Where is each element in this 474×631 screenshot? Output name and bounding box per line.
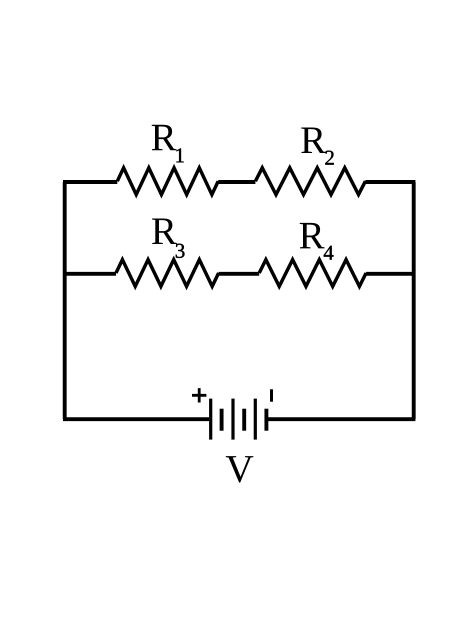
wire middle right segment (366, 272, 415, 276)
label R1 (152, 125, 177, 151)
label R2 subscript 2 (325, 151, 333, 165)
resistor R1 (117, 168, 218, 195)
wire top right segment (365, 180, 415, 184)
label R4 subscript 4 (324, 246, 334, 260)
label R2 (301, 127, 326, 153)
label R1 subscript 1 (176, 148, 183, 162)
wire bottom right segment (268, 417, 415, 421)
wire between R3 and R4 (219, 272, 260, 276)
battery plus sign (192, 388, 206, 402)
battery short plate 3 (264, 409, 268, 431)
battery long plate 3 (254, 399, 257, 440)
wire right vertical (412, 182, 416, 419)
battery short plate 1 (220, 409, 224, 431)
wire middle left segment (63, 272, 116, 276)
battery long plate 2 (231, 399, 234, 440)
battery V plates (192, 388, 272, 440)
wire between R1 and R2 (218, 180, 255, 184)
wire top left segment (63, 180, 117, 184)
wire left vertical (63, 182, 67, 419)
battery short plate 2 (242, 409, 246, 431)
label R3 subscript 3 (176, 244, 185, 258)
label R4 (300, 223, 325, 249)
resistor R4 (259, 260, 366, 287)
battery negative terminal tick (270, 389, 273, 401)
resistor R2 (255, 168, 365, 195)
label R3 (152, 218, 177, 244)
resistor R3 (116, 260, 219, 287)
wire bottom left segment (63, 417, 209, 421)
label V (battery voltage) (226, 456, 254, 482)
battery long plate 1 (209, 399, 212, 440)
